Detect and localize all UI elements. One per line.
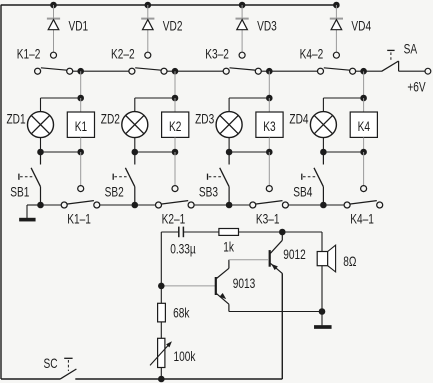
wire contact K2-2 to bus junction: [167, 70, 175, 72]
svg-text:ZD4: ZD4: [289, 111, 308, 127]
relay contact K4-2: [318, 68, 356, 74]
wire coil K1 to contact terminal: [80, 152, 82, 186]
junction bus node 1: [77, 68, 84, 75]
wire top supply rail: [1, 4, 337, 6]
wire node into relay coil K4: [363, 98, 365, 112]
wire contact K2-1 to next node: [194, 204, 229, 206]
junction top rail node 4: [333, 2, 340, 9]
svg-text:VD1: VD1: [69, 18, 89, 34]
wire bottom rail right of SC: [75, 378, 282, 380]
wire relay K3 bottom stem: [268, 137, 270, 152]
wire bottom rail corner to 9012 collector: [281, 273, 283, 379]
terminal coil K3 end: [266, 186, 272, 192]
junction SB3 bottom node: [226, 202, 233, 209]
relay contact K2-1: [156, 201, 195, 208]
wire bus segment 3: [269, 70, 317, 72]
wire SA to +6V terminal: [399, 70, 425, 72]
wire relay K1 bottom stem: [80, 137, 82, 152]
wire coil K3 to contact terminal: [268, 152, 270, 186]
svg-text:K4–2: K4–2: [300, 46, 324, 62]
wire lamp ZD1 bottom stem: [40, 138, 42, 152]
wire speaker bottom stem: [321, 266, 323, 312]
svg-text:VD2: VD2: [163, 18, 183, 34]
wire node into relay coil K3: [268, 98, 270, 112]
junction SB2 bottom node: [132, 202, 139, 209]
junction lamp 1 bottom: [37, 149, 44, 156]
junction lamp 4 bottom: [320, 149, 327, 156]
pushbutton SB4: [302, 152, 324, 205]
terminal coil K4 end: [361, 186, 367, 192]
junction channel 3 top node: [266, 95, 273, 102]
terminal +6V: [425, 68, 431, 74]
junction SB4 bottom node: [320, 202, 327, 209]
wire SB1 node to ground: [27, 205, 41, 218]
wire bus junction 2 down to channel node: [174, 71, 176, 98]
wire capacitor to resistor 1k: [183, 231, 219, 233]
junction coil 4 bottom: [360, 149, 367, 156]
junction channel 1 top node: [77, 95, 84, 102]
pushbutton SB1: [19, 152, 41, 205]
svg-text:SC: SC: [44, 355, 58, 371]
pushbutton SB3: [208, 152, 230, 205]
wire channel 4 bottom node: [323, 151, 363, 153]
wire SB4 node to contact K4-1: [323, 204, 344, 206]
junction bus node 2: [172, 68, 179, 75]
transistor Q1 9013: [216, 260, 229, 312]
wire lamp ZD2 bottom stem: [134, 138, 136, 152]
wire channel 4 top node to lamp: [323, 97, 363, 99]
svg-text:K2–1: K2–1: [162, 211, 186, 227]
junction bus node 4: [360, 68, 367, 75]
switch SA: [381, 50, 398, 71]
wire lamp ZD2 top stem: [134, 98, 136, 112]
svg-text:SB1: SB1: [10, 184, 29, 200]
svg-text:100k: 100k: [174, 349, 196, 365]
junction bottom rail at 100k: [158, 376, 165, 383]
wire left edge vertical: [0, 5, 2, 379]
lamp ZD1: [28, 112, 54, 138]
wire relay K4 bottom stem: [363, 137, 365, 152]
junction bus node 3: [266, 68, 273, 75]
relay contact K3-2: [223, 68, 261, 74]
junction channel 4 top node: [360, 95, 367, 102]
relay coil K1: [67, 112, 94, 137]
wire contact K4-2 to bus junction: [355, 70, 363, 72]
resistor R2 68k: [158, 303, 166, 322]
svg-text:0.33µ: 0.33µ: [170, 241, 196, 257]
wire SB2 node to contact K2-1: [135, 204, 156, 206]
junction coil 3 bottom: [266, 149, 273, 156]
wire channel 1 top node to lamp: [41, 97, 81, 99]
relay contact K1-1: [61, 201, 100, 208]
wire channel 3 top node to lamp: [229, 97, 269, 99]
wire top oscillator left segment: [161, 231, 178, 233]
wire node into relay coil K2: [174, 98, 176, 112]
wire contact K1-1 to next node: [100, 204, 135, 206]
svg-text:ZD2: ZD2: [101, 111, 120, 127]
svg-text:K3–2: K3–2: [205, 46, 229, 62]
wire channel 3 bottom node: [229, 151, 269, 153]
svg-text:K1: K1: [75, 118, 88, 134]
wire 68k to 100k: [160, 322, 162, 338]
svg-text:VD4: VD4: [351, 18, 371, 34]
wire node into relay coil K1: [80, 98, 82, 112]
pushbutton SB2: [113, 152, 135, 205]
svg-text:K4: K4: [358, 118, 371, 134]
junction SB1 bottom node: [37, 202, 44, 209]
svg-text:9012: 9012: [283, 247, 306, 263]
lamp ZD4: [310, 112, 336, 138]
svg-text:+6V: +6V: [407, 79, 425, 95]
wire contact K3-1 to next node: [288, 204, 323, 206]
wire bottom rail left of SC: [1, 378, 61, 380]
diode VD1: [47, 5, 60, 58]
wire emitter rail to ground node: [229, 311, 322, 313]
junction top rail node 2: [145, 2, 152, 9]
junction top rail node 3: [239, 2, 246, 9]
ground at speaker: [314, 325, 331, 328]
svg-text:K4–1: K4–1: [350, 211, 374, 227]
relay coil K4: [350, 112, 377, 137]
svg-text:VD3: VD3: [257, 18, 277, 34]
wire SB1 node to contact K1-1: [41, 204, 62, 206]
resistor R1 1k: [219, 229, 239, 236]
wire SB3 node to contact K3-1: [229, 204, 250, 206]
diode VD4: [330, 5, 343, 58]
transistor Q2 9012: [270, 232, 283, 273]
lamp ZD3: [216, 112, 242, 138]
svg-text:K3–1: K3–1: [256, 211, 280, 227]
wire bus junction 4 down to channel node: [363, 71, 365, 98]
wire 9013 base from capacitor node: [161, 285, 215, 287]
wire contact K1-2 to bus junction: [73, 70, 81, 72]
svg-text:9013: 9013: [233, 276, 256, 292]
svg-text:K1–1: K1–1: [67, 211, 91, 227]
junction capacitor-base node: [158, 283, 165, 290]
wire capacitor branch vertical: [160, 232, 162, 303]
relay coil K3: [256, 112, 283, 137]
switch SC: [61, 358, 77, 379]
junction channel 2 top node: [172, 95, 179, 102]
junction oscillator supply node: [279, 229, 286, 236]
wire bus junction 3 down to channel node: [268, 71, 270, 98]
wire lamp ZD3 top stem: [228, 98, 230, 112]
speaker LS 8 ohm: [317, 245, 335, 272]
svg-text:K2–2: K2–2: [111, 46, 135, 62]
wire coil K2 to contact terminal: [174, 152, 176, 186]
svg-text:1k: 1k: [223, 239, 234, 255]
svg-text:SB2: SB2: [105, 184, 124, 200]
wire lamp ZD1 top stem: [40, 98, 42, 112]
wire 100k to bottom rail: [160, 368, 162, 380]
svg-text:K3: K3: [263, 118, 276, 134]
terminal coil K1 end: [78, 186, 84, 192]
potentiometer RP 100k: [150, 338, 172, 367]
junction coil 1 bottom: [77, 149, 84, 156]
relay contact K3-1: [250, 201, 289, 208]
wire 9013 collector to 9012 base: [229, 259, 269, 261]
relay contact K1-2: [35, 68, 73, 74]
svg-text:8Ω: 8Ω: [343, 254, 356, 270]
svg-text:K2: K2: [169, 118, 182, 134]
relay contact K4-1: [344, 201, 383, 208]
wire bus segment 1: [81, 70, 129, 72]
wire channel 2 bottom node: [135, 151, 175, 153]
wire lamp ZD4 top stem: [322, 98, 324, 112]
wire 9012 collector down to bottom rail: [281, 273, 283, 379]
junction lamp 3 bottom: [226, 149, 233, 156]
svg-text:K1–2: K1–2: [17, 46, 41, 62]
diode VD2: [141, 5, 154, 58]
wire channel 2 top node to lamp: [135, 97, 175, 99]
svg-text:SB4: SB4: [293, 184, 312, 200]
wire coil K4 to contact terminal: [363, 152, 365, 186]
relay contact K2-2: [129, 68, 167, 74]
wire bus to switch SA: [364, 70, 382, 72]
wire lamp ZD3 bottom stem: [228, 138, 230, 152]
relay coil K2: [162, 112, 189, 137]
wire bus junction 1 down to channel node: [80, 71, 82, 98]
wire lamp ZD4 bottom stem: [322, 138, 324, 152]
wire junction to speaker top: [282, 232, 322, 252]
capacitor C1 0.33u: [179, 227, 184, 238]
wire bus segment 2: [175, 70, 223, 72]
wire channel 1 bottom node: [41, 151, 81, 153]
wire 1k to supply junction: [239, 231, 283, 233]
junction lamp 2 bottom: [132, 149, 139, 156]
diode VD3: [236, 5, 249, 58]
wire contact K3-2 to bus junction: [261, 70, 269, 72]
ground at SB1: [19, 218, 35, 221]
svg-text:68k: 68k: [173, 305, 189, 321]
wire relay K2 bottom stem: [174, 137, 176, 152]
svg-text:ZD3: ZD3: [195, 111, 214, 127]
junction speaker ground node: [319, 308, 326, 315]
svg-text:SB3: SB3: [199, 184, 218, 200]
lamp ZD2: [122, 112, 148, 138]
terminal coil K2 end: [172, 186, 178, 192]
junction top rail node 1: [50, 2, 57, 9]
svg-text:ZD1: ZD1: [7, 111, 26, 127]
wire ground stem: [321, 312, 323, 326]
svg-text:SA: SA: [404, 41, 418, 57]
junction coil 2 bottom: [172, 149, 179, 156]
